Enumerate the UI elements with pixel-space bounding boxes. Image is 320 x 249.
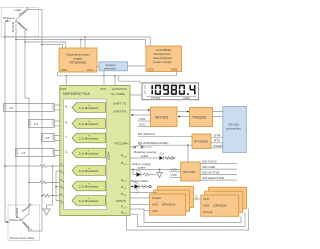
- ISO7321: [151, 107, 178, 127]
- svg-text:Source from utility: Source from utility: [10, 236, 35, 240]
- svg-text:−: −: [88, 156, 90, 160]
- source phase A label: [5, 218, 22, 223]
- load phase B diagonal: [16, 20, 29, 32]
- svg-text:SD24: SD24: [107, 152, 111, 160]
- ISO7320: [181, 162, 201, 181]
- svg-text:pulse: pulse: [138, 165, 146, 169]
- svg-text:RGND: RGND: [214, 144, 224, 148]
- svg-text:Sx, COMx: Sx, COMx: [111, 92, 126, 96]
- svg-text:Y.X: Y.X: [123, 188, 127, 190]
- svg-text:CT: CT: [10, 106, 14, 110]
- svg-text:selection: selection: [104, 67, 116, 71]
- RS-232VCC net: [138, 132, 192, 136]
- bus line phase C: [41, 44, 62, 48]
- wire ISO7321 to TRS3232: [177, 111, 190, 118]
- svg-text:+: +: [88, 149, 90, 153]
- svg-text:CT: CT: [22, 151, 26, 155]
- wire right stack route 3: [127, 209, 249, 231]
- ISO7320 VCC label: [170, 168, 181, 172]
- load box: [1, 8, 38, 37]
- svg-text:Status LEDs: Status LEDs: [131, 179, 149, 183]
- sigma-delta modulator 5 (VA): [60, 163, 105, 178]
- svg-text:+: +: [88, 166, 90, 170]
- svg-text:3: 3: [195, 195, 197, 199]
- svg-text:CT: CT: [46, 136, 50, 140]
- reactive energy pulse label: [134, 150, 157, 158]
- wire cap supply to jumper: [97, 66, 99, 68]
- svg-text:UART RX: UART RX: [113, 110, 126, 114]
- wire VSS to MCU: [65, 76, 67, 86]
- CT B secondary wires: [54, 121, 72, 126]
- svg-text:RTS: RTS: [214, 139, 220, 143]
- jumper selection: [99, 62, 128, 71]
- svg-text:ISO7321: ISO7321: [155, 116, 168, 120]
- RS-232 connection: [223, 107, 247, 153]
- svg-text:TPS70933: TPS70933: [194, 140, 209, 144]
- svg-text:(TPS54060): (TPS54060): [70, 61, 87, 65]
- DRV5033 right stack front: [201, 195, 239, 216]
- wire phase C vertical: [41, 10, 43, 232]
- svg-text:VSS: VSS: [139, 117, 145, 121]
- wire MCU VDSYS to left stack VSS: [130, 204, 150, 206]
- CT C secondary wires: [54, 136, 72, 141]
- svg-text:VSS: VSS: [203, 203, 209, 207]
- bus line phase B: [24, 41, 65, 48]
- load neutral label: [11, 22, 15, 32]
- load phase C diagonal: [16, 6, 43, 20]
- active pulse wire: [130, 169, 181, 171]
- SD24 inner box: [64, 99, 111, 210]
- svg-text:+: +: [88, 134, 90, 138]
- neutral arrow symbol: [157, 170, 162, 178]
- svg-text:VCC: VCC: [152, 209, 159, 213]
- svg-text:TRS3232: TRS3232: [192, 116, 206, 120]
- svg-text:X.X: X.X: [123, 156, 127, 158]
- svg-text:DRV5033: DRV5033: [162, 202, 176, 206]
- svg-text:ISO-ACTIVE: ISO-ACTIVE: [202, 171, 220, 175]
- svg-text:VCC: VCC: [139, 122, 146, 126]
- UCC28910 flyback supply: [146, 46, 182, 72]
- svg-text:E.X: E.X: [123, 213, 127, 215]
- TRS3232: [190, 108, 213, 127]
- sigma-delta modulator 4 (IN): [65, 148, 106, 160]
- svg-text:DRV5033: DRV5033: [214, 203, 228, 207]
- ISO7321 VSS label: [138, 117, 151, 121]
- wire rail to LCD: [119, 76, 140, 84]
- svg-text:kWh: kWh: [184, 96, 190, 100]
- ISO7321 VCC label: [138, 122, 151, 126]
- svg-text:Output: Output: [203, 210, 212, 214]
- RS-232GND net: [138, 141, 192, 162]
- voltage tap phase B with resistor: [28, 181, 72, 184]
- svg-text:+: +: [88, 103, 90, 107]
- svg-text:−: −: [88, 111, 90, 115]
- sigma-delta modulator 7 (VC): [60, 193, 105, 208]
- svg-text:−: −: [88, 204, 90, 208]
- wire MCU to left stack output: [130, 197, 150, 199]
- MCU MSP430F67791A: [60, 86, 130, 216]
- svg-text:ISO-DVCC: ISO-DVCC: [202, 160, 218, 164]
- svg-text:CT: CT: [34, 122, 38, 126]
- bus line phase A: [4, 36, 150, 48]
- wire jumper to UCC VCC: [128, 65, 147, 67]
- CT A secondary wires: [54, 105, 72, 110]
- RTS net: [211, 139, 223, 143]
- svg-text:RS-232VCC: RS-232VCC: [138, 132, 156, 136]
- wire neutral vertical: [15, 20, 17, 216]
- wire TRS3232 to RS-232: [213, 112, 223, 117]
- svg-text:−: −: [88, 174, 90, 178]
- voltage tap phase A with resistor: [4, 165, 72, 168]
- svg-text:−: −: [88, 141, 90, 145]
- voltage tap phase C with resistor: [41, 194, 72, 197]
- DTR net: [211, 134, 223, 138]
- ISO-GND net: [200, 165, 237, 169]
- svg-text:ISO-GND: ISO-GND: [202, 165, 216, 169]
- sigma-delta modulator 1 (IA): [65, 103, 106, 115]
- svg-text:Phase A: Phase A: [3, 16, 15, 20]
- reed switch on RTCCAPx: [130, 144, 152, 148]
- ISO7320 VSS label: [170, 173, 181, 177]
- svg-text:+: +: [88, 119, 90, 123]
- ISO-DVCC net: [200, 160, 237, 164]
- svg-text:3: 3: [136, 188, 138, 192]
- source phase C diagonal: [21, 220, 42, 233]
- svg-text:DTR: DTR: [214, 134, 221, 138]
- CT C: [42, 134, 55, 142]
- svg-text:VCC: VCC: [87, 68, 94, 72]
- svg-text:X.X: X.X: [123, 164, 127, 166]
- svg-text:+: +: [88, 196, 90, 200]
- sigma-delta modulator 2 (IB): [65, 119, 106, 131]
- divider ground bus: [47, 166, 53, 209]
- svg-text:Output: Output: [152, 196, 161, 200]
- ground: [43, 209, 50, 215]
- ISO-REACTIVE net: [200, 176, 237, 180]
- wire left stack VCC stub: [144, 210, 150, 212]
- svg-text:AUXVCC3: AUXVCC3: [112, 87, 127, 91]
- active energy pulse label: [132, 162, 151, 170]
- svg-text:ISO7320: ISO7320: [183, 170, 195, 174]
- wire MCU to LCD: [130, 94, 142, 96]
- wire to right stack bus of 3: [193, 195, 200, 201]
- svg-text:VCC: VCC: [203, 197, 210, 201]
- DRV5033 left stack back blocks: [154, 186, 194, 211]
- svg-text:VSS: VSS: [171, 173, 177, 177]
- svg-text:RTCCAPx: RTCCAPx: [115, 142, 130, 146]
- svg-text:TOTAL: TOTAL: [151, 96, 161, 100]
- reactive pulse wire with LED and resistor: [130, 152, 175, 160]
- CT A: [4, 104, 55, 112]
- svg-text:MSP430F67791A: MSP430F67791A: [63, 92, 91, 96]
- DRV5033 right stack back blocks: [205, 187, 247, 212]
- active LED branch: [133, 170, 156, 177]
- wire phase A vertical: [4, 21, 6, 222]
- svg-text:VSS: VSS: [171, 67, 177, 71]
- svg-text:VSS: VSS: [152, 202, 158, 206]
- DRV5033 left stack front: [150, 194, 186, 215]
- VSS rail: [58, 72, 177, 77]
- CT N: [16, 149, 55, 157]
- source box: [8, 205, 40, 241]
- svg-text:−: −: [88, 189, 90, 193]
- wire jumper output to MCU VCC: [103, 71, 105, 86]
- MCU right edge pin labels: [113, 102, 129, 216]
- svg-text:X.X: X.X: [123, 181, 127, 183]
- RGND net: [211, 144, 223, 148]
- sigma-delta modulator 3 (IC): [65, 133, 106, 145]
- svg-text:VSS: VSS: [60, 87, 66, 91]
- wire MCU to right stack route 2: [130, 212, 245, 226]
- TPS70933: [192, 134, 211, 149]
- source phase B diagonal: [21, 203, 32, 220]
- wire MCU to left stack bus of 3: [130, 188, 157, 194]
- wire rail to MCU AUXVCC3: [114, 76, 116, 86]
- LCD display: [142, 83, 198, 100]
- CT N secondary wires: [54, 151, 72, 156]
- load phase A label: [3, 16, 15, 22]
- svg-text:RS-232GND(IsoGND): RS-232GND(IsoGND): [138, 141, 168, 145]
- svg-text:VDSYS: VDSYS: [116, 199, 127, 203]
- wire MCU to right stack route 1: [130, 209, 241, 223]
- source neutral label: [15, 208, 22, 220]
- svg-text:pulse: pulse: [141, 154, 149, 158]
- svg-text:+: +: [88, 182, 90, 186]
- svg-text:VCC: VCC: [171, 168, 178, 172]
- svg-text:VCC: VCC: [100, 87, 107, 91]
- ISO-ACTIVE net: [200, 171, 237, 175]
- bus line neutral: [15, 39, 145, 48]
- svg-text:VSS: VSS: [61, 68, 67, 72]
- svg-text:connection: connection: [226, 127, 241, 131]
- svg-text:Neutral: Neutral: [11, 22, 15, 32]
- status LED wire: [131, 182, 152, 189]
- sigma-delta modulator 6 (VB): [60, 178, 105, 193]
- svg-text:−: −: [88, 127, 90, 131]
- svg-text:power supply: power supply: [154, 60, 173, 64]
- svg-text:ISO-REACTIVE: ISO-REACTIVE: [202, 176, 224, 180]
- svg-text:Y.X: Y.X: [123, 195, 127, 197]
- wire phase B vertical: [25, 29, 29, 214]
- svg-text:VCC: VCC: [148, 67, 155, 71]
- svg-text:UART TX: UART TX: [113, 102, 126, 106]
- wire UART TX: [130, 109, 151, 111]
- CT B: [29, 120, 55, 128]
- wire UART RX: [131, 114, 151, 116]
- svg-text:C.X: C.X: [123, 208, 127, 210]
- neutral sense bus: [55, 171, 72, 201]
- capacitive power supply TPS54060: [59, 48, 97, 72]
